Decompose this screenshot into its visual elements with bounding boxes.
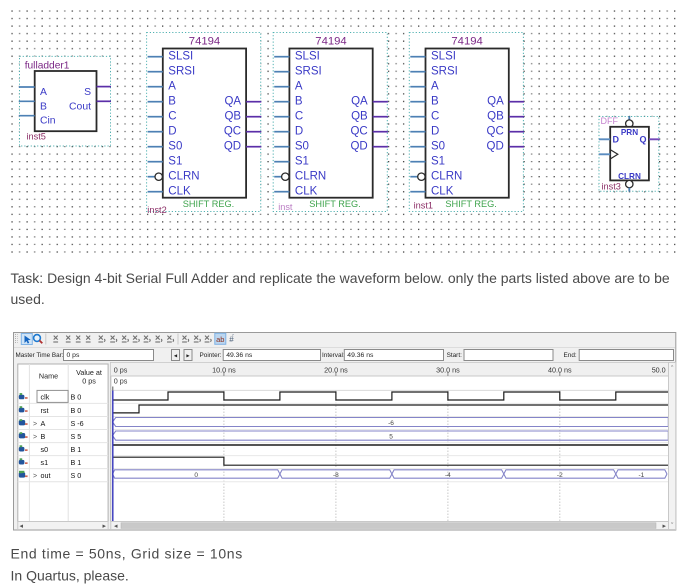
signal name panel	[18, 364, 108, 530]
svg-text:A: A	[168, 81, 176, 93]
svg-text:-2: -2	[557, 472, 563, 479]
svg-text:-4: -4	[445, 472, 451, 479]
svg-text:PRN: PRN	[621, 128, 638, 137]
svg-text:B: B	[431, 96, 439, 108]
svg-text:B 1: B 1	[71, 458, 82, 467]
svg-text:CLK: CLK	[168, 186, 191, 198]
wire: input stub B inst2	[148, 101, 163, 103]
svg-text:inst1: inst1	[414, 200, 433, 210]
svg-text:D: D	[168, 126, 176, 138]
svg-text:S: S	[84, 87, 91, 98]
svg-text:5: 5	[389, 434, 393, 441]
selection box inst2	[147, 33, 261, 212]
svg-text:S0: S0	[431, 141, 445, 153]
selection box inst	[273, 33, 387, 212]
wire: output stub Q	[649, 138, 660, 140]
svg-text:SHIFT REG.: SHIFT REG.	[183, 199, 234, 209]
svg-text:QB: QB	[224, 111, 241, 123]
svg-text:In Quartus, please.: In Quartus, please.	[11, 567, 129, 583]
svg-text:QC: QC	[487, 126, 504, 138]
selection box fulladder1	[20, 56, 111, 146]
svg-text:▸: ▸	[103, 523, 107, 530]
wire: output stub QB inst2	[246, 116, 261, 118]
wire: input stub C inst1	[410, 116, 425, 118]
svg-text:49.36 ns: 49.36 ns	[226, 352, 253, 359]
toolbar	[14, 333, 675, 347]
svg-text:SHIFT REG.: SHIFT REG.	[309, 199, 360, 209]
svg-text:>: >	[33, 421, 37, 428]
wire: input stub A inst	[274, 86, 289, 88]
svg-text:out: out	[41, 471, 51, 480]
svg-text:0 ps: 0 ps	[67, 352, 80, 359]
svg-text:clk: clk	[41, 393, 50, 402]
svg-text:S0: S0	[168, 141, 182, 153]
svg-text:>: >	[33, 434, 37, 441]
svg-text:CLRN: CLRN	[431, 171, 462, 183]
svg-text:-6: -6	[388, 420, 394, 427]
svg-text:Master Time Bar:: Master Time Bar:	[16, 352, 64, 359]
svg-text:rst: rst	[41, 406, 49, 415]
wire: input stub S1 inst1	[410, 161, 425, 163]
wire: input stub S0 inst2	[148, 146, 163, 148]
wave display area	[111, 363, 676, 531]
selection box inst1	[409, 33, 523, 212]
svg-text:QA: QA	[487, 96, 504, 108]
wire: input stub CLRN inst2	[148, 176, 155, 178]
svg-text:Name: Name	[39, 372, 58, 381]
svg-text:inst5: inst5	[27, 132, 46, 142]
svg-text:CLRN: CLRN	[295, 171, 326, 183]
clock triangle	[610, 150, 618, 159]
master time bar cursor at 0 ps	[112, 391, 114, 522]
s0 waveform	[113, 444, 669, 446]
wire: input stub S0 inst	[274, 146, 289, 148]
CLRN inversion bubble inst2	[155, 173, 162, 180]
svg-text:SRSI: SRSI	[431, 66, 458, 78]
svg-text:End:: End:	[564, 352, 577, 359]
svg-text:Start:: Start:	[447, 352, 462, 359]
svg-text:QB: QB	[487, 111, 504, 123]
wire: input stub SLSI inst2	[148, 56, 163, 58]
DFF body rectangle	[610, 127, 649, 181]
svg-text:Q: Q	[639, 135, 646, 145]
wire: input stub S1 inst	[274, 161, 289, 163]
wire: output stub QD inst1	[509, 146, 524, 148]
svg-text:used.: used.	[11, 291, 45, 307]
svg-text:0 ps: 0 ps	[82, 377, 96, 386]
svg-text:B: B	[41, 432, 46, 441]
svg-text:49.36 ns: 49.36 ns	[347, 352, 374, 359]
svg-text:B: B	[168, 96, 176, 108]
wire: input stub CLK inst	[274, 191, 289, 193]
svg-text:0 ps: 0 ps	[114, 365, 128, 374]
svg-text:A: A	[41, 419, 46, 428]
wire: CLRN stub (bottom)	[628, 188, 630, 192]
wire: input stub A inst2	[148, 86, 163, 88]
svg-text:inst: inst	[278, 202, 293, 212]
wire: input stub SLSI inst	[274, 56, 289, 58]
svg-text:ab: ab	[216, 335, 224, 344]
svg-text:A: A	[40, 87, 47, 98]
wire: input stub CLRN inst	[274, 176, 281, 178]
svg-text:B: B	[40, 101, 47, 112]
svg-text:End time = 50ns, Grid size = 1: End time = 50ns, Grid size = 10ns	[11, 545, 243, 561]
svg-text:B 0: B 0	[71, 406, 82, 415]
A bus waveform (-6)	[113, 418, 669, 427]
svg-text:QC: QC	[224, 126, 241, 138]
wire: output stub QD inst	[373, 146, 388, 148]
wire: output stub QC inst1	[509, 131, 524, 133]
svg-text:C: C	[168, 111, 176, 123]
svg-text:QD: QD	[350, 141, 367, 153]
svg-text:QB: QB	[351, 111, 368, 123]
CLRN inversion bubble inst1	[418, 173, 425, 180]
svg-text:A: A	[431, 81, 439, 93]
s1 waveform	[113, 457, 669, 465]
out bus waveform (0,-8,-4,-2,-1)	[113, 470, 668, 478]
wire: output stub S	[97, 86, 112, 88]
wire: input stub Cin	[19, 115, 35, 117]
wire: output stub QB inst1	[509, 116, 524, 118]
svg-text:74194: 74194	[315, 35, 346, 47]
svg-text:D: D	[613, 135, 620, 145]
svg-text:CLK: CLK	[431, 186, 454, 198]
CLRN inversion bubble inst	[282, 173, 289, 180]
svg-text:SLSI: SLSI	[295, 51, 320, 63]
wire: clock input stub	[599, 153, 610, 155]
CLRN inversion bubble (bottom)	[626, 180, 633, 187]
svg-text:CLRN: CLRN	[618, 172, 641, 181]
wire: output stub QB inst	[373, 116, 388, 118]
wire: input stub CLK inst2	[148, 191, 163, 193]
clk waveform	[113, 392, 672, 400]
svg-text:QD: QD	[224, 141, 241, 153]
svg-text:SRSI: SRSI	[295, 66, 322, 78]
D flip-flop component inst3 (DFF)	[599, 116, 660, 191]
svg-text:SHIFT REG.: SHIFT REG.	[445, 199, 496, 209]
wire: output stub QC inst	[373, 131, 388, 133]
svg-text:-1: -1	[639, 472, 645, 479]
wire: input stub A	[19, 86, 35, 88]
svg-text:s1: s1	[41, 458, 49, 467]
svg-text:B 0: B 0	[71, 393, 82, 402]
wire: input stub C inst2	[148, 116, 163, 118]
svg-text:S1: S1	[431, 156, 445, 168]
wire: input stub D	[599, 138, 610, 140]
full adder component inst5 (fulladder1)	[19, 56, 111, 146]
selection box DFF inst3	[599, 117, 659, 192]
PRN inversion bubble	[626, 120, 633, 127]
wire: input stub CLRN inst1	[410, 176, 417, 178]
svg-text:▸: ▸	[663, 523, 667, 530]
wire: input stub CLK inst1	[410, 191, 425, 193]
wire: input stub S1 inst2	[148, 161, 163, 163]
svg-text:S -6: S -6	[71, 419, 84, 428]
wire: input stub B	[19, 100, 35, 102]
74194 shift register component inst1	[409, 33, 524, 212]
wire: input stub C inst	[274, 116, 289, 118]
74194 body rectangle inst	[289, 49, 372, 198]
svg-text:SLSI: SLSI	[431, 51, 456, 63]
wire: output stub QD inst2	[246, 146, 261, 148]
wire: input stub SLSI inst1	[410, 56, 425, 58]
svg-text:DFF: DFF	[601, 116, 619, 126]
svg-text:0: 0	[194, 472, 198, 479]
svg-text:QC: QC	[350, 126, 367, 138]
svg-text:QA: QA	[351, 96, 368, 108]
74194 body rectangle inst2	[163, 49, 246, 198]
schematic grid dots	[11, 10, 676, 253]
fulladder body rectangle	[35, 71, 97, 131]
svg-text:SRSI: SRSI	[168, 66, 195, 78]
svg-text:>: >	[33, 473, 37, 480]
master time bar row	[16, 350, 674, 361]
svg-text:0 ps: 0 ps	[114, 376, 128, 385]
wire: input stub SRSI inst1	[410, 71, 425, 73]
svg-text:S 0: S 0	[71, 471, 82, 480]
svg-text:B 1: B 1	[71, 445, 82, 454]
74194 shift register component inst	[273, 33, 388, 213]
svg-text:Task: Design 4-bit Serial Full: Task: Design 4-bit Serial Full Adder and…	[11, 270, 670, 286]
svg-text:Interval:: Interval:	[322, 352, 345, 359]
wire: input stub D inst1	[410, 131, 425, 133]
wire: input stub SRSI inst2	[148, 71, 163, 73]
svg-text:Cout: Cout	[69, 101, 91, 112]
svg-text:s0: s0	[41, 445, 49, 454]
waveform editor window	[14, 333, 676, 531]
wire: PRN stub	[628, 116, 630, 120]
rst waveform	[113, 405, 669, 413]
svg-text:D: D	[431, 126, 439, 138]
wire: output stub Cout	[97, 100, 112, 102]
B bus waveform (5)	[113, 431, 669, 440]
wire: input stub SRSI inst	[274, 71, 289, 73]
wire: output stub QA inst	[373, 101, 388, 103]
svg-text:D: D	[295, 126, 303, 138]
svg-text:SLSI: SLSI	[168, 51, 193, 63]
wire: output stub QA inst2	[246, 101, 261, 103]
svg-text:CLK: CLK	[295, 186, 318, 198]
wire: input stub B inst1	[410, 101, 425, 103]
svg-text:#́: #́	[229, 335, 234, 344]
svg-text:inst2: inst2	[147, 205, 166, 215]
wire: input stub S0 inst1	[410, 146, 425, 148]
svg-text:fulladder1: fulladder1	[25, 60, 70, 71]
wire: input stub A inst1	[410, 86, 425, 88]
svg-text:QA: QA	[224, 96, 241, 108]
svg-text:◂: ◂	[20, 523, 24, 530]
svg-text:-8: -8	[333, 472, 339, 479]
wire: output stub QC inst2	[246, 131, 261, 133]
svg-text:74194: 74194	[189, 35, 220, 47]
74194 body rectangle inst1	[426, 49, 509, 198]
svg-text:S 5: S 5	[71, 432, 82, 441]
svg-text:QD: QD	[487, 141, 504, 153]
svg-text:C: C	[431, 111, 439, 123]
svg-text:74194: 74194	[451, 35, 482, 47]
svg-text:◂: ◂	[114, 523, 118, 530]
svg-text:A: A	[295, 81, 303, 93]
wire: input stub D inst2	[148, 131, 163, 133]
svg-text:CLRN: CLRN	[168, 171, 199, 183]
svg-text:Pointer:: Pointer:	[200, 352, 222, 359]
svg-text:B: B	[295, 96, 303, 108]
wire: input stub B inst	[274, 101, 289, 103]
wire: input stub D inst	[274, 131, 289, 133]
svg-text:S0: S0	[295, 141, 309, 153]
svg-text:inst3: inst3	[602, 182, 621, 192]
svg-text:S1: S1	[168, 156, 182, 168]
wire: output stub QA inst1	[509, 101, 524, 103]
svg-text:S1: S1	[295, 156, 309, 168]
svg-text:Cin: Cin	[40, 116, 56, 127]
svg-text:C: C	[295, 111, 303, 123]
74194 shift register component inst2	[147, 33, 262, 215]
